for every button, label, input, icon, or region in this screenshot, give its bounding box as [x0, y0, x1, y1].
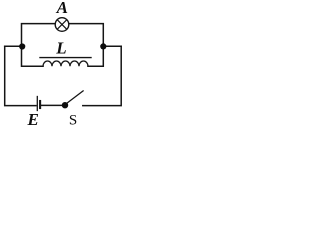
wire right jumper [103, 45, 121, 47]
svg-text:A: A [56, 0, 68, 17]
wire lamp branch left [22, 24, 56, 47]
wire lamp branch right [69, 24, 103, 47]
inductor L coil [43, 61, 88, 66]
svg-text:S: S [69, 112, 77, 126]
node left junction [19, 43, 25, 49]
wire right rail and switch fixed contact [83, 46, 121, 105]
battery E short plate [39, 101, 41, 108]
lamp A cross [57, 20, 67, 30]
svg-text:E: E [27, 110, 39, 126]
wire battery to switch [41, 104, 65, 106]
battery E long plate [36, 97, 38, 111]
wire left rail and bottom-left [5, 46, 36, 105]
switch S pivot dot [62, 102, 68, 108]
lamp A circle [55, 18, 69, 32]
svg-text:L: L [55, 39, 66, 58]
wire left jumper [5, 45, 22, 47]
inductor L core line [40, 57, 91, 59]
wire inductor branch right riser [88, 46, 103, 66]
wire inductor branch left riser [22, 46, 44, 66]
node right junction [100, 43, 106, 49]
switch S lever [66, 91, 83, 104]
